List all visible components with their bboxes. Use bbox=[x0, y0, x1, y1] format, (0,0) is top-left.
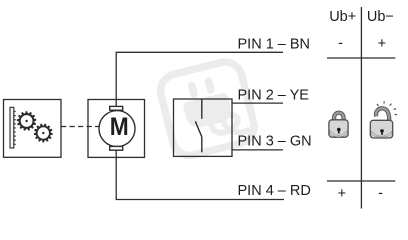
svg-text:PIN 2 – YE: PIN 2 – YE bbox=[238, 88, 310, 104]
svg-text:+: + bbox=[378, 36, 386, 52]
svg-text:M: M bbox=[110, 113, 129, 141]
svg-text:-: - bbox=[338, 36, 343, 52]
svg-text:+: + bbox=[338, 186, 346, 202]
svg-text:Ub−: Ub− bbox=[367, 9, 394, 25]
svg-text:PIN 3 – GN: PIN 3 – GN bbox=[238, 134, 312, 150]
svg-text:-: - bbox=[378, 186, 383, 202]
svg-text:PIN 4 – RD: PIN 4 – RD bbox=[238, 183, 311, 199]
svg-text:PIN 1 – BN: PIN 1 – BN bbox=[238, 36, 311, 52]
svg-text:Ub+: Ub+ bbox=[329, 9, 356, 25]
